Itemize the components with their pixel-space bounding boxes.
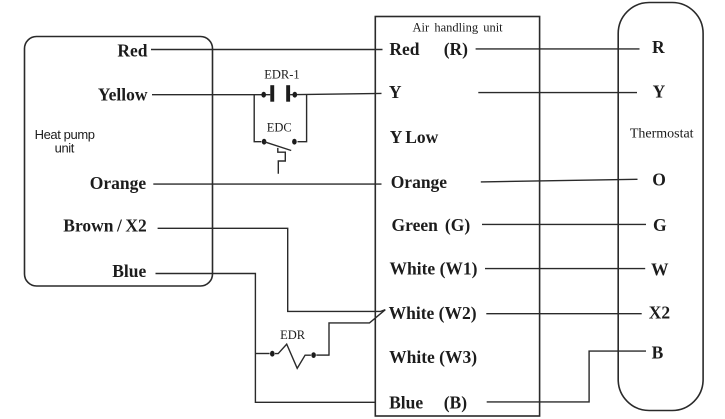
svg-text:B: B (652, 342, 664, 362)
svg-text:Yellow: Yellow (98, 84, 148, 104)
wire EDC branch right vertical (298, 95, 307, 142)
wire X2 (air handler to thermostat) (486, 313, 641, 315)
wire W (air handler to thermostat) (485, 268, 645, 270)
heat pump unit box (25, 37, 213, 287)
svg-text:Y: Y (389, 82, 402, 102)
wire Brown/X2 to White(W2) (158, 228, 386, 311)
svg-text:(G): (G) (445, 215, 470, 235)
svg-text:EDC: EDC (267, 121, 292, 135)
wire EDR to White(W2) junction (329, 310, 385, 356)
wire Blue down and to Blue(B) (156, 274, 376, 403)
wire Yellow left segment (152, 94, 270, 96)
svg-text:White (W1): White (W1) (390, 258, 478, 278)
svg-text:W: W (651, 260, 669, 280)
wire EDC branch left vertical (254, 95, 261, 142)
svg-text:X2: X2 (649, 302, 670, 322)
svg-text:Air handling unit: Air handling unit (413, 21, 504, 35)
wire Y (air handler to thermostat) (478, 92, 637, 94)
wire G (air handler to thermostat) (482, 223, 646, 225)
wire Yellow right segment (290, 93, 381, 94)
switch EDC (262, 139, 297, 174)
svg-text:White (W2): White (W2) (389, 303, 477, 323)
wire Orange (153, 183, 381, 185)
svg-text:(B): (B) (444, 392, 468, 412)
wire R (air handler to thermostat) (476, 48, 640, 50)
svg-text:Y: Y (653, 82, 666, 102)
svg-text:Orange: Orange (391, 172, 448, 192)
svg-text:Red: Red (117, 41, 147, 61)
svg-text:Red: Red (389, 39, 419, 59)
svg-text:EDR: EDR (280, 328, 306, 342)
svg-text:White (W3): White (W3) (389, 347, 477, 367)
thermostat box (618, 3, 703, 411)
wire Red (heat pump to air handler) (151, 49, 383, 51)
wire B (air handler up to thermostat) (487, 351, 646, 402)
svg-text:Orange: Orange (90, 173, 147, 193)
svg-text:(R): (R) (444, 39, 468, 59)
svg-text:Thermostat: Thermostat (630, 127, 694, 142)
svg-text:Blue: Blue (112, 261, 146, 281)
svg-text:R: R (652, 37, 665, 57)
svg-text:Low: Low (405, 127, 438, 147)
wire O (air handler to thermostat) (481, 179, 638, 182)
svg-text:unit: unit (55, 140, 75, 155)
svg-text:EDR-1: EDR-1 (264, 68, 299, 82)
switch EDR (255, 344, 328, 368)
svg-text:Y: Y (390, 127, 403, 147)
svg-text:Green: Green (392, 215, 439, 235)
svg-text:Blue: Blue (389, 392, 423, 412)
svg-text:G: G (653, 215, 667, 235)
svg-text:O: O (652, 169, 666, 189)
svg-text:Brown / X2: Brown / X2 (63, 216, 147, 236)
contact EDR-1 (261, 85, 297, 102)
air handling unit box (375, 17, 539, 417)
